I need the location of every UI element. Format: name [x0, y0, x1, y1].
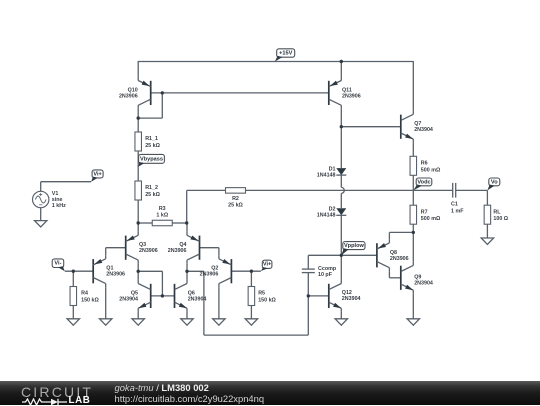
svg-text:1N4148: 1N4148 [317, 172, 336, 178]
svg-text:R2: R2 [232, 196, 239, 202]
svg-text:10 pF: 10 pF [318, 272, 333, 278]
svg-text:1 mF: 1 mF [451, 208, 464, 214]
svg-text:R1_2: R1_2 [145, 185, 158, 191]
svg-text:R6: R6 [421, 161, 428, 167]
svg-text:1 kΩ: 1 kΩ [156, 212, 168, 218]
svg-text:R4: R4 [81, 291, 88, 297]
svg-text:2N3906: 2N3906 [106, 272, 125, 278]
svg-text:Vo: Vo [491, 179, 498, 185]
svg-text:Vi+: Vi+ [263, 262, 272, 268]
svg-text:Vbypass: Vbypass [140, 156, 163, 162]
svg-text:25 kΩ: 25 kΩ [145, 143, 160, 149]
svg-text:R7: R7 [421, 209, 428, 215]
svg-text:2N3904: 2N3904 [188, 296, 207, 302]
svg-text:2N3904: 2N3904 [414, 280, 433, 286]
svg-text:C1: C1 [451, 202, 458, 208]
svg-text:2N3906: 2N3906 [342, 93, 361, 99]
svg-text:500 mΩ: 500 mΩ [421, 216, 441, 222]
svg-text:Vpplow: Vpplow [344, 243, 365, 249]
svg-text:Vi+: Vi+ [93, 171, 102, 177]
svg-text:500 mΩ: 500 mΩ [421, 167, 441, 173]
svg-text:1 kHz: 1 kHz [52, 203, 66, 209]
svg-text:RL: RL [493, 209, 501, 215]
svg-text:2N3906: 2N3906 [119, 93, 138, 99]
svg-text:2N3906: 2N3906 [168, 248, 187, 254]
svg-text:100 Ω: 100 Ω [493, 216, 508, 222]
svg-text:2N3904: 2N3904 [414, 127, 433, 133]
svg-text:R1_1: R1_1 [145, 136, 158, 142]
svg-text:R3: R3 [159, 206, 166, 212]
svg-text:Ccomp: Ccomp [318, 266, 337, 272]
svg-text:1N4148: 1N4148 [317, 213, 336, 219]
svg-text:2N3904: 2N3904 [342, 296, 361, 302]
svg-text:25 kΩ: 25 kΩ [228, 203, 243, 209]
svg-text:R5: R5 [258, 291, 265, 297]
svg-text:150 kΩ: 150 kΩ [81, 298, 99, 304]
svg-text:+15V: +15V [279, 50, 292, 56]
svg-text:Vodc: Vodc [417, 179, 430, 185]
svg-text:150 kΩ: 150 kΩ [258, 298, 276, 304]
svg-text:2N3906: 2N3906 [390, 256, 409, 262]
svg-text:2N3906: 2N3906 [200, 272, 219, 278]
svg-text:25 kΩ: 25 kΩ [145, 192, 160, 198]
svg-text:2N3904: 2N3904 [119, 296, 138, 302]
svg-text:2N3906: 2N3906 [139, 248, 158, 254]
svg-text:Vi-: Vi- [54, 261, 61, 267]
